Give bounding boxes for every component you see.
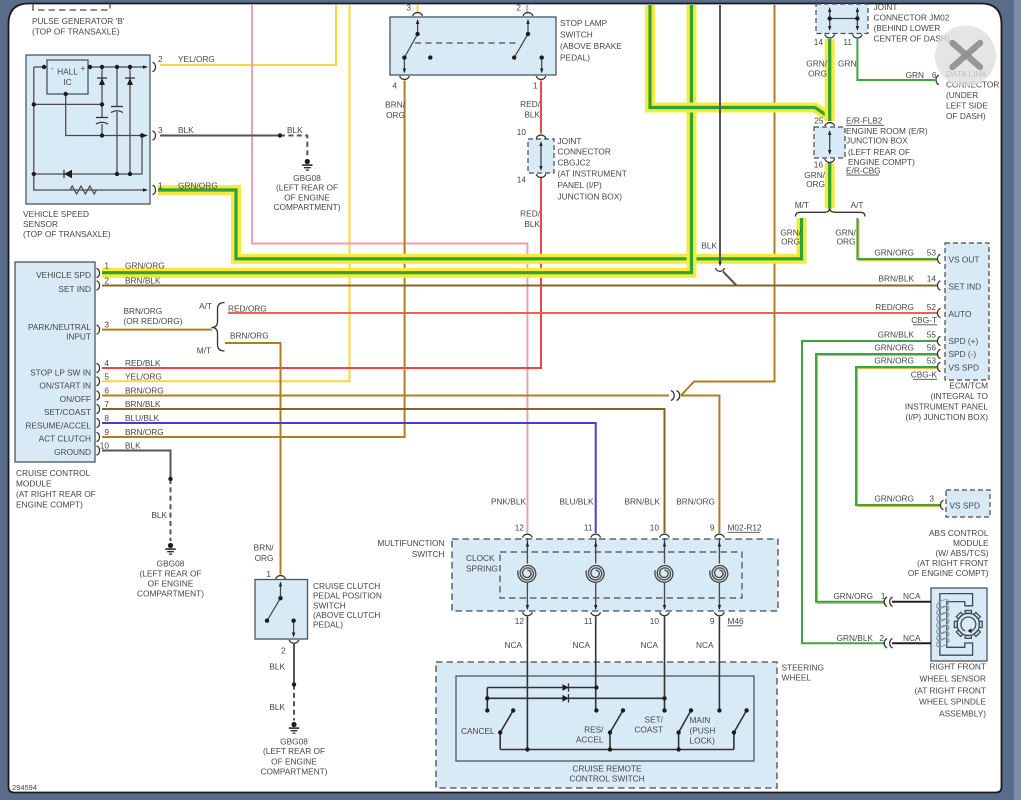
svg-text:GRN: GRN: [906, 70, 924, 80]
wire PNK/BLK stop lamp pin2 stub: [526, 5, 528, 12]
svg-text:3: 3: [929, 494, 934, 504]
svg-text:1: 1: [158, 181, 163, 191]
svg-text:BLK: BLK: [269, 662, 285, 672]
svg-text:JOINT: JOINT: [558, 136, 582, 146]
wheel sensor housing: [940, 594, 973, 656]
joint connector JM02 box: [816, 4, 868, 34]
wheel sensor coil: [935, 598, 950, 610]
svg-text:CENTER OF DASH): CENTER OF DASH): [874, 34, 950, 44]
svg-text:+: +: [81, 63, 86, 73]
svg-text:NCA: NCA: [572, 640, 590, 650]
cruise remote control switch outer dashed box (steering wheel): [436, 662, 777, 788]
svg-text:1: 1: [104, 261, 109, 271]
svg-text:BLU/BLK: BLU/BLK: [125, 413, 160, 423]
svg-text:RIGHT FRONT: RIGHT FRONT: [929, 662, 986, 672]
svg-text:COMPARTMENT): COMPARTMENT): [137, 588, 204, 598]
svg-text:1: 1: [266, 569, 271, 579]
cruise remote control switch inner box: [456, 676, 754, 761]
svg-text:GRN/ORG: GRN/ORG: [874, 356, 914, 366]
svg-text:3: 3: [104, 320, 109, 330]
svg-text:YEL/ORG: YEL/ORG: [125, 371, 162, 381]
cruise control module box: [15, 262, 95, 462]
svg-text:GRN/BLK: GRN/BLK: [878, 330, 915, 340]
inline connector on ON/OFF wire: [671, 391, 674, 401]
svg-text:5: 5: [104, 371, 109, 381]
diode 1: [563, 684, 569, 691]
svg-text:RES/: RES/: [584, 725, 604, 735]
svg-text:(INTEGRAL TO: (INTEGRAL TO: [931, 391, 989, 401]
svg-text:14: 14: [517, 175, 527, 185]
svg-text:SPD (-): SPD (-): [949, 349, 977, 359]
speed sensor internal circuit: [34, 67, 145, 190]
svg-text:RED/: RED/: [520, 209, 541, 219]
svg-text:GRN/ORG: GRN/ORG: [874, 248, 914, 258]
svg-text:BLK: BLK: [269, 702, 285, 712]
svg-text:BLK: BLK: [125, 441, 141, 451]
svg-text:2: 2: [516, 3, 521, 13]
svg-text:14: 14: [927, 274, 937, 284]
svg-text:BRN/ORG: BRN/ORG: [125, 386, 164, 396]
svg-text:(BEHIND LOWER: (BEHIND LOWER: [874, 23, 941, 33]
ground GBG08 (module): [168, 543, 173, 548]
svg-text:BRN/BLK: BRN/BLK: [878, 274, 914, 284]
clock spring dashed box: [500, 552, 742, 598]
svg-text:COMPARTMENT): COMPARTMENT): [261, 766, 328, 776]
svg-text:RED/ORG: RED/ORG: [875, 302, 914, 312]
svg-text:ACCEL: ACCEL: [576, 735, 604, 745]
wire BRN/BLK module pin2 SET IND to ECM pin14: [102, 285, 937, 287]
DLC pin6 arc: [936, 75, 939, 84]
wire BRN/ORG M/T branch to clutch switch pin1: [225, 343, 281, 575]
svg-text:PARK/NEUTRAL: PARK/NEUTRAL: [28, 322, 91, 332]
svg-text:PULSE GENERATOR 'B': PULSE GENERATOR 'B': [32, 16, 125, 26]
svg-text:(LEFT REAR OF: (LEFT REAR OF: [263, 746, 325, 756]
svg-text:ORG: ORG: [837, 237, 856, 247]
svg-text:GRN/ORG: GRN/ORG: [178, 181, 218, 191]
stop lamp switch box: [390, 17, 556, 75]
wire GRN/BLK ECM SPD+ pin55 to wheel sensor pin2: [802, 341, 937, 643]
svg-text:(AT RIGHT FRONT: (AT RIGHT FRONT: [915, 685, 986, 695]
svg-text:SET/: SET/: [645, 715, 664, 725]
svg-text:3: 3: [406, 3, 411, 13]
svg-text:CRUISE CLUTCH: CRUISE CLUTCH: [313, 581, 380, 591]
svg-text:STOP LP SW IN: STOP LP SW IN: [30, 367, 91, 377]
svg-text:BRN/ORG: BRN/ORG: [124, 306, 163, 316]
svg-text:294594: 294594: [12, 783, 37, 792]
svg-text:16: 16: [814, 160, 824, 170]
svg-text:BLK: BLK: [151, 510, 167, 520]
svg-text:(OR RED/ORG): (OR RED/ORG): [124, 316, 183, 326]
svg-text:M/T: M/T: [197, 346, 211, 356]
svg-text:GRN/: GRN/: [806, 59, 827, 69]
svg-text:9: 9: [104, 427, 109, 437]
svg-text:CONNECTOR: CONNECTOR: [558, 147, 611, 157]
wire GRN/ORG ECM VS SPD pin53 to ABS pin3: [858, 369, 942, 507]
svg-text:53: 53: [927, 356, 937, 366]
svg-text:ON/START IN: ON/START IN: [39, 381, 91, 391]
wire GRN/ORG (thick) JM02 pin14 to E/R-FLB2 pin25: [825, 39, 835, 121]
svg-text:CBGJC2: CBGJC2: [558, 158, 591, 168]
svg-text:11: 11: [584, 616, 593, 626]
wire YEL/ORG sensor pin2 to top: [160, 5, 336, 65]
svg-text:E/R-FLB2: E/R-FLB2: [846, 116, 883, 126]
svg-text:GRN/ORG: GRN/ORG: [833, 591, 873, 601]
svg-text:M46: M46: [728, 616, 745, 626]
svg-text:LOCK): LOCK): [690, 736, 716, 746]
svg-text:8: 8: [104, 413, 109, 423]
inline connector wheel sensor pin1: [884, 597, 887, 607]
svg-text:OF ENGINE: OF ENGINE: [271, 757, 317, 767]
svg-text:52: 52: [927, 302, 937, 312]
svg-text:1: 1: [881, 591, 886, 601]
wire BLK from top to SET IND splice: [719, 5, 721, 262]
svg-text:OF ENGINE: OF ENGINE: [284, 192, 330, 202]
svg-text:BRN/ORG: BRN/ORG: [676, 497, 715, 507]
svg-text:BRN/: BRN/: [385, 100, 406, 110]
svg-text:GBG08: GBG08: [280, 737, 308, 747]
wire RED/BLK stop lamp pin1 to CBGJC2 pin10: [540, 81, 542, 134]
ABS control module box: [946, 490, 990, 517]
svg-text:INPUT: INPUT: [66, 331, 91, 341]
svg-text:(I/P) JUNCTION BOX): (I/P) JUNCTION BOX): [905, 412, 988, 422]
svg-text:MODULE: MODULE: [16, 479, 52, 489]
wire BLK module pin10 GROUND: [102, 451, 171, 480]
svg-text:WHEEL SPINDLE: WHEEL SPINDLE: [919, 697, 986, 707]
svg-text:1: 1: [533, 81, 538, 91]
svg-text:ENGINE COMPT): ENGINE COMPT): [16, 500, 83, 510]
svg-text:BLK: BLK: [178, 125, 194, 135]
svg-text:CRUISE CONTROL: CRUISE CONTROL: [16, 468, 91, 478]
svg-text:ON/OFF: ON/OFF: [60, 394, 91, 404]
svg-text:NCA: NCA: [504, 640, 522, 650]
svg-text:PEDAL): PEDAL): [560, 53, 590, 63]
wire BLK NCA wheel sensor pin2: [892, 642, 931, 644]
svg-text:GBG08: GBG08: [293, 173, 321, 183]
svg-text:ECM/TCM: ECM/TCM: [949, 381, 988, 391]
svg-text:COMPARTMENT): COMPARTMENT): [274, 202, 341, 212]
svg-text:ENGINE ROOM (E/R): ENGINE ROOM (E/R): [846, 126, 928, 136]
JM02 internals: [830, 18, 858, 20]
wire BRN/ORG branch up to top edge: [681, 5, 775, 396]
svg-text:(LEFT REAR OF: (LEFT REAR OF: [139, 568, 201, 578]
svg-text:PEDAL POSITION: PEDAL POSITION: [313, 591, 382, 601]
diode 2: [563, 695, 569, 702]
svg-text:12: 12: [515, 616, 525, 626]
svg-text:WHEEL SENSOR: WHEEL SENSOR: [919, 673, 986, 683]
wire BLK dashed to ground GBG08 (module): [170, 479, 172, 541]
svg-text:E/R-CBG: E/R-CBG: [846, 165, 881, 175]
svg-text:NCA: NCA: [640, 640, 658, 650]
svg-text:ORG: ORG: [806, 179, 825, 189]
svg-text:53: 53: [927, 248, 937, 258]
wire BLK sensor pin3 to junction: [160, 135, 280, 137]
svg-text:A/T: A/T: [851, 200, 864, 210]
svg-text:10: 10: [650, 616, 660, 626]
svg-text:CRUISE REMOTE: CRUISE REMOTE: [572, 764, 642, 774]
brace M/T-A/T (park/neutral split): [212, 303, 225, 352]
svg-text:SET IND: SET IND: [949, 282, 982, 292]
svg-text:MAIN: MAIN: [690, 715, 711, 725]
svg-text:PNK/BLK: PNK/BLK: [491, 497, 527, 507]
svg-text:STOP LAMP: STOP LAMP: [560, 18, 608, 28]
svg-text:BRN/ORG: BRN/ORG: [125, 427, 164, 437]
svg-text:IC: IC: [63, 77, 71, 87]
svg-text:10: 10: [100, 441, 110, 451]
svg-text:RESUME/ACCEL: RESUME/ACCEL: [26, 421, 92, 431]
wire GRN/ORG (thick) from top to E/R elbow: [650, 5, 830, 118]
wire BLK NCA wheel sensor pin1: [892, 601, 931, 603]
cruise clutch pedal position switch box: [255, 580, 308, 640]
svg-text:CONTROL SWITCH: CONTROL SWITCH: [569, 774, 644, 784]
wire BRN/ORG connector to multifunction pin9: [681, 396, 719, 534]
svg-text:WHEEL: WHEEL: [782, 673, 812, 683]
wire BLK dashed to ground GBG08: [280, 136, 307, 158]
svg-text:PANEL (I/P): PANEL (I/P): [558, 180, 602, 190]
svg-text:GRN/BLK: GRN/BLK: [837, 633, 874, 643]
wire BRN/ORG module pin6 ON/OFF to inline connector: [102, 395, 669, 397]
ABS pin3 arc: [940, 500, 943, 509]
inline connector wheel sensor pin2: [884, 638, 887, 648]
svg-text:4: 4: [392, 81, 397, 91]
CBGJC2 internal arrow: [540, 145, 542, 167]
multifunction switch / clock spring internals: [526, 538, 528, 564]
wire GRN/ORG (thick) brace to E/R-FLB2 pin16: [825, 163, 835, 209]
wire YEL/ORG stop lamp pin3 stub: [417, 5, 419, 12]
svg-text:HALL: HALL: [57, 67, 78, 77]
svg-text:CBG-K: CBG-K: [911, 370, 938, 380]
ECM pin arcs: [937, 254, 940, 263]
svg-text:(UNDER: (UNDER: [946, 90, 978, 100]
svg-text:(ABOVE BRAKE: (ABOVE BRAKE: [560, 41, 622, 51]
svg-text:9: 9: [710, 616, 715, 626]
cruise remote control switch internals: [487, 617, 746, 750]
svg-text:-: -: [51, 63, 54, 73]
svg-text:(LEFT REAR OF: (LEFT REAR OF: [276, 183, 338, 193]
wire GRN/ORG (thick) sensor pin1 to M/T brace: [158, 190, 802, 259]
svg-text:RED/BLK: RED/BLK: [125, 358, 161, 368]
svg-text:M/T: M/T: [795, 200, 809, 210]
svg-text:11: 11: [584, 523, 593, 533]
svg-text:NCA: NCA: [696, 640, 714, 650]
wire GRN/ORG (thick) module pin1 VEHICLE SPD to top: [102, 5, 692, 273]
brace M/T-A/T (speed signal split): [796, 208, 866, 216]
svg-text:2: 2: [104, 276, 109, 286]
ECM/TCM box: [945, 243, 989, 380]
wire BLK dashed to ground GBG08 (clutch): [293, 685, 295, 721]
svg-text:PEDAL): PEDAL): [313, 620, 343, 630]
svg-text:CONNECTOR JM02: CONNECTOR JM02: [874, 13, 950, 23]
svg-text:OF DASH): OF DASH): [946, 111, 986, 121]
svg-text:56: 56: [927, 343, 937, 353]
svg-text:VEHICLE SPEED: VEHICLE SPEED: [23, 209, 89, 219]
svg-text:STEERING: STEERING: [782, 663, 824, 673]
svg-text:14: 14: [814, 37, 824, 47]
svg-text:CLOCK: CLOCK: [466, 553, 495, 563]
E/R-FLB2 junction box: [814, 127, 845, 158]
svg-text:ORG: ORG: [781, 237, 800, 247]
svg-text:VEHICLE SPD: VEHICLE SPD: [36, 270, 91, 280]
wire RED/BLK CBGJC2 pin14 to module pin4: [102, 178, 541, 368]
svg-text:2: 2: [281, 646, 286, 656]
svg-text:SENSOR: SENSOR: [23, 219, 58, 229]
svg-text:GRN: GRN: [838, 59, 856, 69]
svg-text:CANCEL: CANCEL: [461, 726, 495, 736]
svg-text:BRN/: BRN/: [254, 543, 275, 553]
svg-text:BLK: BLK: [524, 110, 540, 120]
svg-text:(PUSH: (PUSH: [690, 726, 716, 736]
svg-text:10: 10: [650, 523, 660, 533]
svg-text:2: 2: [158, 54, 163, 64]
wheel sensor tone ring gear: [957, 613, 979, 635]
svg-text:BLK: BLK: [524, 219, 540, 229]
svg-text:GRN/ORG: GRN/ORG: [874, 343, 914, 353]
svg-text:RED/ORG: RED/ORG: [228, 304, 267, 314]
wire RED/ORG A/T branch to ECM AUTO pin52: [228, 312, 937, 314]
wire GRN/ORG A/T branch to ECM VS OUT pin53: [859, 220, 939, 261]
svg-text:OF ENGINE COMPT): OF ENGINE COMPT): [908, 568, 989, 578]
E/R-FLB2 internal arrow: [829, 134, 831, 151]
pulse generator B dashed box (partial): [33, 5, 110, 11]
wire BRN/ORG stop lamp pin4 to module pin9 ACT CLUTCH: [102, 81, 405, 438]
svg-text:CBG-T: CBG-T: [911, 315, 937, 325]
cruise module pin arcs: [97, 268, 100, 277]
svg-text:SWITCH: SWITCH: [313, 600, 346, 610]
multifunction switch dashed box: [452, 539, 778, 611]
svg-text:11: 11: [843, 37, 852, 47]
svg-text:BRN/BLK: BRN/BLK: [624, 497, 660, 507]
svg-text:OF ENGINE: OF ENGINE: [148, 578, 194, 588]
svg-text:(AT RIGHT FRONT: (AT RIGHT FRONT: [917, 558, 988, 568]
svg-text:(AT INSTRUMENT: (AT INSTRUMENT: [558, 169, 627, 179]
svg-text:2: 2: [879, 633, 884, 643]
svg-text:12: 12: [515, 523, 525, 533]
svg-text:GRN/ORG: GRN/ORG: [874, 494, 914, 504]
svg-text:BLK: BLK: [287, 125, 303, 135]
svg-text:M02-R12: M02-R12: [728, 523, 763, 533]
svg-text:ORG: ORG: [386, 110, 405, 120]
svg-text:JOINT: JOINT: [874, 2, 898, 12]
wire BLU/BLK module pin8 RESUME/ACCEL to multifunction pin11: [102, 423, 596, 533]
joint connector CBGJC2 box: [528, 139, 554, 173]
svg-text:7: 7: [104, 399, 109, 409]
svg-text:6: 6: [104, 386, 109, 396]
svg-text:A/T: A/T: [199, 301, 212, 311]
svg-text:25: 25: [814, 116, 824, 126]
svg-text:(TOP OF TRANSAXLE): (TOP OF TRANSAXLE): [23, 229, 111, 239]
close button watermark: [935, 26, 996, 87]
svg-text:MODULE: MODULE: [953, 538, 989, 548]
HALL IC box: [47, 60, 88, 94]
svg-text:ORG: ORG: [255, 553, 274, 563]
svg-text:ORG: ORG: [808, 69, 827, 79]
svg-text:COAST: COAST: [634, 725, 663, 735]
svg-text:SET/COAST: SET/COAST: [44, 407, 91, 417]
svg-text:GRN/ORG: GRN/ORG: [125, 261, 165, 271]
svg-text:SWITCH: SWITCH: [560, 30, 593, 40]
svg-text:GROUND: GROUND: [54, 447, 91, 457]
svg-text:SPRING: SPRING: [466, 564, 498, 574]
stop lamp switch internals: [404, 20, 541, 72]
svg-text:SPD (+): SPD (+): [949, 336, 979, 346]
svg-text:VS SPD: VS SPD: [949, 363, 979, 373]
svg-text:4: 4: [104, 358, 109, 368]
svg-text:(W/ ABS/TCS): (W/ ABS/TCS): [935, 548, 988, 558]
svg-text:INSTRUMENT PANEL: INSTRUMENT PANEL: [905, 402, 989, 412]
svg-text:BRN/ORG: BRN/ORG: [230, 331, 269, 341]
svg-text:(AT RIGHT REAR OF: (AT RIGHT REAR OF: [16, 489, 96, 499]
vehicle speed sensor box: [26, 55, 150, 204]
svg-text:(ABOVE CLUTCH: (ABOVE CLUTCH: [313, 610, 380, 620]
svg-text:NCA: NCA: [903, 633, 921, 643]
svg-text:ASSEMBLY): ASSEMBLY): [939, 709, 986, 719]
svg-text:BLU/BLK: BLU/BLK: [559, 497, 594, 507]
svg-text:LEFT SIDE: LEFT SIDE: [946, 101, 988, 111]
svg-text:SWITCH: SWITCH: [412, 549, 445, 559]
svg-text:6: 6: [932, 70, 937, 80]
wire BRN/BLK module pin7 SET/COAST to multifunction pin10: [102, 409, 665, 533]
svg-text:JUNCTION BOX): JUNCTION BOX): [558, 192, 623, 202]
right front wheel sensor box: [931, 588, 987, 661]
svg-text:10: 10: [517, 127, 527, 137]
svg-text:ABS CONTROL: ABS CONTROL: [929, 528, 989, 538]
svg-text:RED/: RED/: [520, 99, 541, 109]
svg-text:VS SPD: VS SPD: [950, 501, 980, 511]
svg-text:YEL/ORG: YEL/ORG: [178, 54, 215, 64]
wire BRN/ORG module pin3 to brace: [102, 329, 212, 331]
ground GBG08 (sensor): [305, 159, 310, 164]
wire PNK/BLK from top to multifunction pin12: [252, 5, 527, 533]
svg-text:55: 55: [927, 330, 937, 340]
wire GRN JM02 pin11 to data link connector pin6: [857, 39, 935, 80]
svg-text:(LEFT REAR OF: (LEFT REAR OF: [848, 147, 910, 157]
svg-text:SET IND: SET IND: [58, 284, 91, 294]
wire YEL/ORG module pin5 ON/START to top: [102, 5, 350, 381]
svg-text:ACT CLUTCH: ACT CLUTCH: [39, 434, 91, 444]
wire GRN/ORG ECM SPD- pin56 to wheel sensor pin1: [818, 356, 939, 604]
svg-text:BLK: BLK: [701, 241, 717, 251]
svg-text:JUNCTION BOX: JUNCTION BOX: [846, 136, 908, 146]
svg-text:GBG08: GBG08: [157, 558, 185, 568]
svg-text:(TOP OF TRANSAXLE): (TOP OF TRANSAXLE): [32, 27, 120, 37]
clutch pedal switch internals: [267, 583, 294, 637]
svg-text:BRN/BLK: BRN/BLK: [125, 399, 161, 409]
wire BLK clutch switch pin2 down: [293, 644, 295, 685]
svg-text:NCA: NCA: [903, 591, 921, 601]
svg-text:3: 3: [158, 125, 163, 135]
svg-text:9: 9: [710, 523, 715, 533]
svg-text:AUTO: AUTO: [949, 309, 972, 319]
svg-text:VS OUT: VS OUT: [949, 255, 980, 265]
svg-text:MULTIFUNCTION: MULTIFUNCTION: [377, 538, 444, 548]
ground GBG08 (clutch): [291, 722, 296, 727]
svg-text:BRN/BLK: BRN/BLK: [125, 276, 161, 286]
